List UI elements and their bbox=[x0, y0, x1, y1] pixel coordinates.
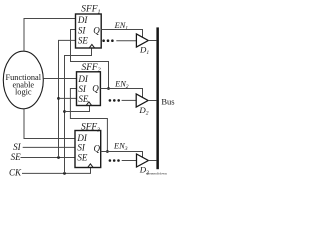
svg-text:DI: DI bbox=[77, 74, 88, 84]
svg-text:Q: Q bbox=[92, 84, 99, 94]
wire: buffer 1 output to bus bbox=[148, 40, 156, 42]
node: CK branch junction to SFF2 bbox=[63, 110, 66, 113]
wire: SE branch to SE of SFF2 bbox=[59, 97, 77, 99]
wire: scan chain Q2 to SI of SFF1 bbox=[71, 30, 109, 89]
svg-text:SI: SI bbox=[77, 142, 86, 152]
svg-text:greensoftdown: greensoftdown bbox=[147, 171, 167, 175]
wire: buffer 2 output to bus bbox=[148, 100, 156, 102]
tri-state buffer U3 bbox=[137, 154, 149, 167]
svg-text:SI: SI bbox=[13, 142, 22, 152]
wire: SE input line bbox=[21, 157, 76, 159]
svg-text:CK: CK bbox=[9, 168, 22, 178]
wire: ellipse top to DI of SFF1 bbox=[24, 19, 76, 52]
wire: scan chain Q3 to SI of SFF2 bbox=[70, 89, 107, 152]
node: CK junction bbox=[63, 172, 66, 175]
wire: Q3/EN3 to buffer 3 enable bbox=[101, 152, 143, 158]
node: ellipsis dots row 1 bbox=[102, 39, 113, 42]
svg-text:logic: logic bbox=[15, 88, 32, 97]
wire: buffer 3 output to bus bbox=[148, 160, 156, 162]
wire: SI input to SI of SFF3 bbox=[23, 146, 75, 148]
tri-state buffer U2 bbox=[136, 94, 148, 107]
node: tap junction on Q3 line bbox=[106, 150, 109, 153]
wire: CK input to SFF3 clock bbox=[22, 168, 91, 174]
node: SE branch junction to SFF2 bbox=[57, 97, 60, 100]
wire: data input to buffer 3 bbox=[122, 160, 137, 162]
svg-text:Bus: Bus bbox=[161, 96, 174, 106]
functional enable logic block U0 (ellipse) bbox=[3, 51, 43, 109]
wire: data input to buffer 2 bbox=[122, 99, 137, 101]
svg-text:DI: DI bbox=[77, 15, 88, 25]
svg-text:SI: SI bbox=[78, 25, 87, 35]
svg-text:SE: SE bbox=[77, 153, 88, 163]
wire: SE vertical distribution to SE of SFF1 bbox=[59, 40, 76, 157]
wire: ellipse right to DI of SFF2 bbox=[43, 78, 76, 80]
wire: data input to buffer 1 bbox=[116, 40, 136, 42]
wire: ellipse bottom to DI of SFF3 bbox=[24, 109, 75, 139]
wire: CK vertical distribution to SFF1 clock bbox=[65, 48, 92, 173]
tri-state buffer U1 bbox=[136, 34, 148, 47]
node: ellipsis dots row 2 bbox=[109, 99, 120, 102]
wire: Q2/EN2 to buffer 2 enable bbox=[100, 89, 142, 98]
svg-text:Q: Q bbox=[93, 25, 100, 35]
flip-flop SFF3 bbox=[75, 123, 101, 168]
wire: CK branch to SFF2 clock bbox=[65, 106, 90, 112]
flip-flop SFF1 bbox=[76, 5, 102, 48]
svg-text:SE: SE bbox=[11, 152, 22, 162]
node: SE junction bbox=[57, 156, 60, 159]
svg-text:SI: SI bbox=[78, 84, 87, 94]
node: ellipsis dots row 3 bbox=[109, 159, 120, 162]
bus line bbox=[156, 27, 159, 169]
flip-flop SFF2 bbox=[77, 63, 101, 106]
wire: Q1/EN1 to buffer 1 enable bbox=[101, 30, 142, 38]
svg-text:SE: SE bbox=[78, 94, 89, 104]
node: tap junction on Q2 line bbox=[107, 87, 110, 90]
svg-text:SE: SE bbox=[78, 36, 89, 46]
svg-text:Q: Q bbox=[94, 143, 101, 153]
